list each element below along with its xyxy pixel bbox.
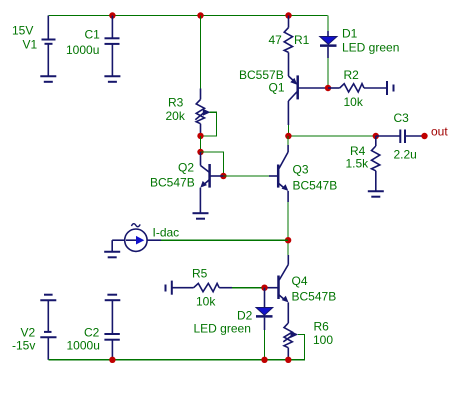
svg-text:100: 100 <box>313 333 333 347</box>
svg-text:R6: R6 <box>314 320 330 334</box>
wire R3 to Q2 <box>200 136 202 152</box>
node Q1/Q3 collector junction <box>285 133 291 139</box>
svg-text:BC547B: BC547B <box>292 290 337 304</box>
svg-text:C3: C3 <box>394 111 410 125</box>
capacitor C1 <box>105 16 120 77</box>
node R3 top junction <box>197 12 203 18</box>
capacitor C2 <box>104 295 120 360</box>
node Q2 collector junction <box>197 149 203 155</box>
transistor Q1 BC557B <box>288 75 328 125</box>
ground under C1 <box>104 76 120 82</box>
svg-text:Q4: Q4 <box>292 274 308 288</box>
wire Q2 base to Q3 base <box>223 175 269 177</box>
svg-text:R2: R2 <box>344 68 360 82</box>
wire Q3 emitter to Q4 collector <box>287 202 289 255</box>
wire R6 wiper loop <box>288 335 304 360</box>
capacitor C3 <box>376 130 425 144</box>
node out <box>421 133 427 139</box>
potentiometer R3 <box>195 16 210 136</box>
node R3 bottom junction <box>197 133 203 139</box>
node I-dac junction <box>285 237 291 243</box>
svg-text:R1: R1 <box>294 33 310 47</box>
terminal left of R5 <box>166 281 172 295</box>
svg-text:D1: D1 <box>342 27 358 41</box>
LED D1 <box>320 16 337 89</box>
ground under V1 <box>40 76 56 82</box>
svg-text:2.2u: 2.2u <box>394 148 417 162</box>
resistor R4 <box>372 136 380 191</box>
node Q4 base junction <box>261 285 267 291</box>
wire R3 wiper loop <box>201 112 217 136</box>
wire +15V top rail <box>48 15 327 17</box>
svg-text:LED green: LED green <box>342 41 399 55</box>
node D2 bottom junction <box>261 357 267 363</box>
svg-text:Q2: Q2 <box>178 161 194 175</box>
svg-text:10k: 10k <box>196 295 216 309</box>
ground under R4 <box>368 191 384 197</box>
svg-text:20k: 20k <box>166 109 186 123</box>
svg-text:C2: C2 <box>84 326 100 340</box>
transistor Q4 BC547B <box>265 255 289 323</box>
transistor Q2 BC547B <box>200 152 223 213</box>
ground left of I-dac <box>104 252 120 257</box>
svg-text:-15v: -15v <box>12 339 35 353</box>
node R6 bottom junction <box>285 357 291 363</box>
svg-text:V2: V2 <box>21 326 36 340</box>
svg-text:47: 47 <box>269 33 283 47</box>
svg-text:BC547B: BC547B <box>150 176 195 190</box>
svg-text:out: out <box>431 125 448 139</box>
node R4/C3 junction <box>373 133 379 139</box>
resistor R1 <box>284 16 292 77</box>
svg-text:R3: R3 <box>168 96 184 110</box>
svg-text:C1: C1 <box>85 28 101 42</box>
node Q2 base junction <box>220 173 226 179</box>
svg-text:15V: 15V <box>12 24 33 38</box>
voltage source V2 <box>40 295 56 360</box>
voltage source V1 <box>42 16 56 77</box>
resistor R2 <box>328 84 387 92</box>
terminal right of R2 <box>387 81 394 95</box>
wire I-dac to Q3/Q4 <box>161 239 288 241</box>
svg-text:D2: D2 <box>237 309 253 323</box>
wire node A <box>288 135 375 137</box>
svg-text:1.5k: 1.5k <box>346 157 370 171</box>
svg-text:R5: R5 <box>192 267 208 281</box>
svg-text:I-dac: I-dac <box>153 226 180 240</box>
potentiometer R6 <box>283 323 298 360</box>
svg-text:1000u: 1000u <box>67 339 100 353</box>
resistor R5 <box>172 283 232 291</box>
node R1 top junction <box>285 12 291 18</box>
transistor Q3 BC547B <box>269 145 288 202</box>
wire R5 to Q4 base <box>232 287 265 289</box>
node C1 top junction <box>109 12 115 18</box>
svg-text:Q3: Q3 <box>293 163 309 177</box>
LED D2 <box>256 288 273 360</box>
svg-text:LED green: LED green <box>194 322 251 336</box>
svg-text:10k: 10k <box>344 95 364 109</box>
current source I-dac <box>112 224 161 252</box>
svg-text:Q1: Q1 <box>269 81 285 95</box>
wire -15V bottom rail <box>48 359 304 361</box>
svg-text:BC547B: BC547B <box>293 179 338 193</box>
ground under Q2 <box>193 213 209 219</box>
svg-text:1000u: 1000u <box>66 43 99 57</box>
wire Q1 collector to node A <box>287 125 289 136</box>
wire Q2 collector-base loop <box>201 152 224 176</box>
node Q1 base junction <box>325 85 331 91</box>
wire Q3 collector <box>287 136 289 145</box>
svg-text:V1: V1 <box>23 38 38 52</box>
node C2 bottom junction <box>109 357 115 363</box>
